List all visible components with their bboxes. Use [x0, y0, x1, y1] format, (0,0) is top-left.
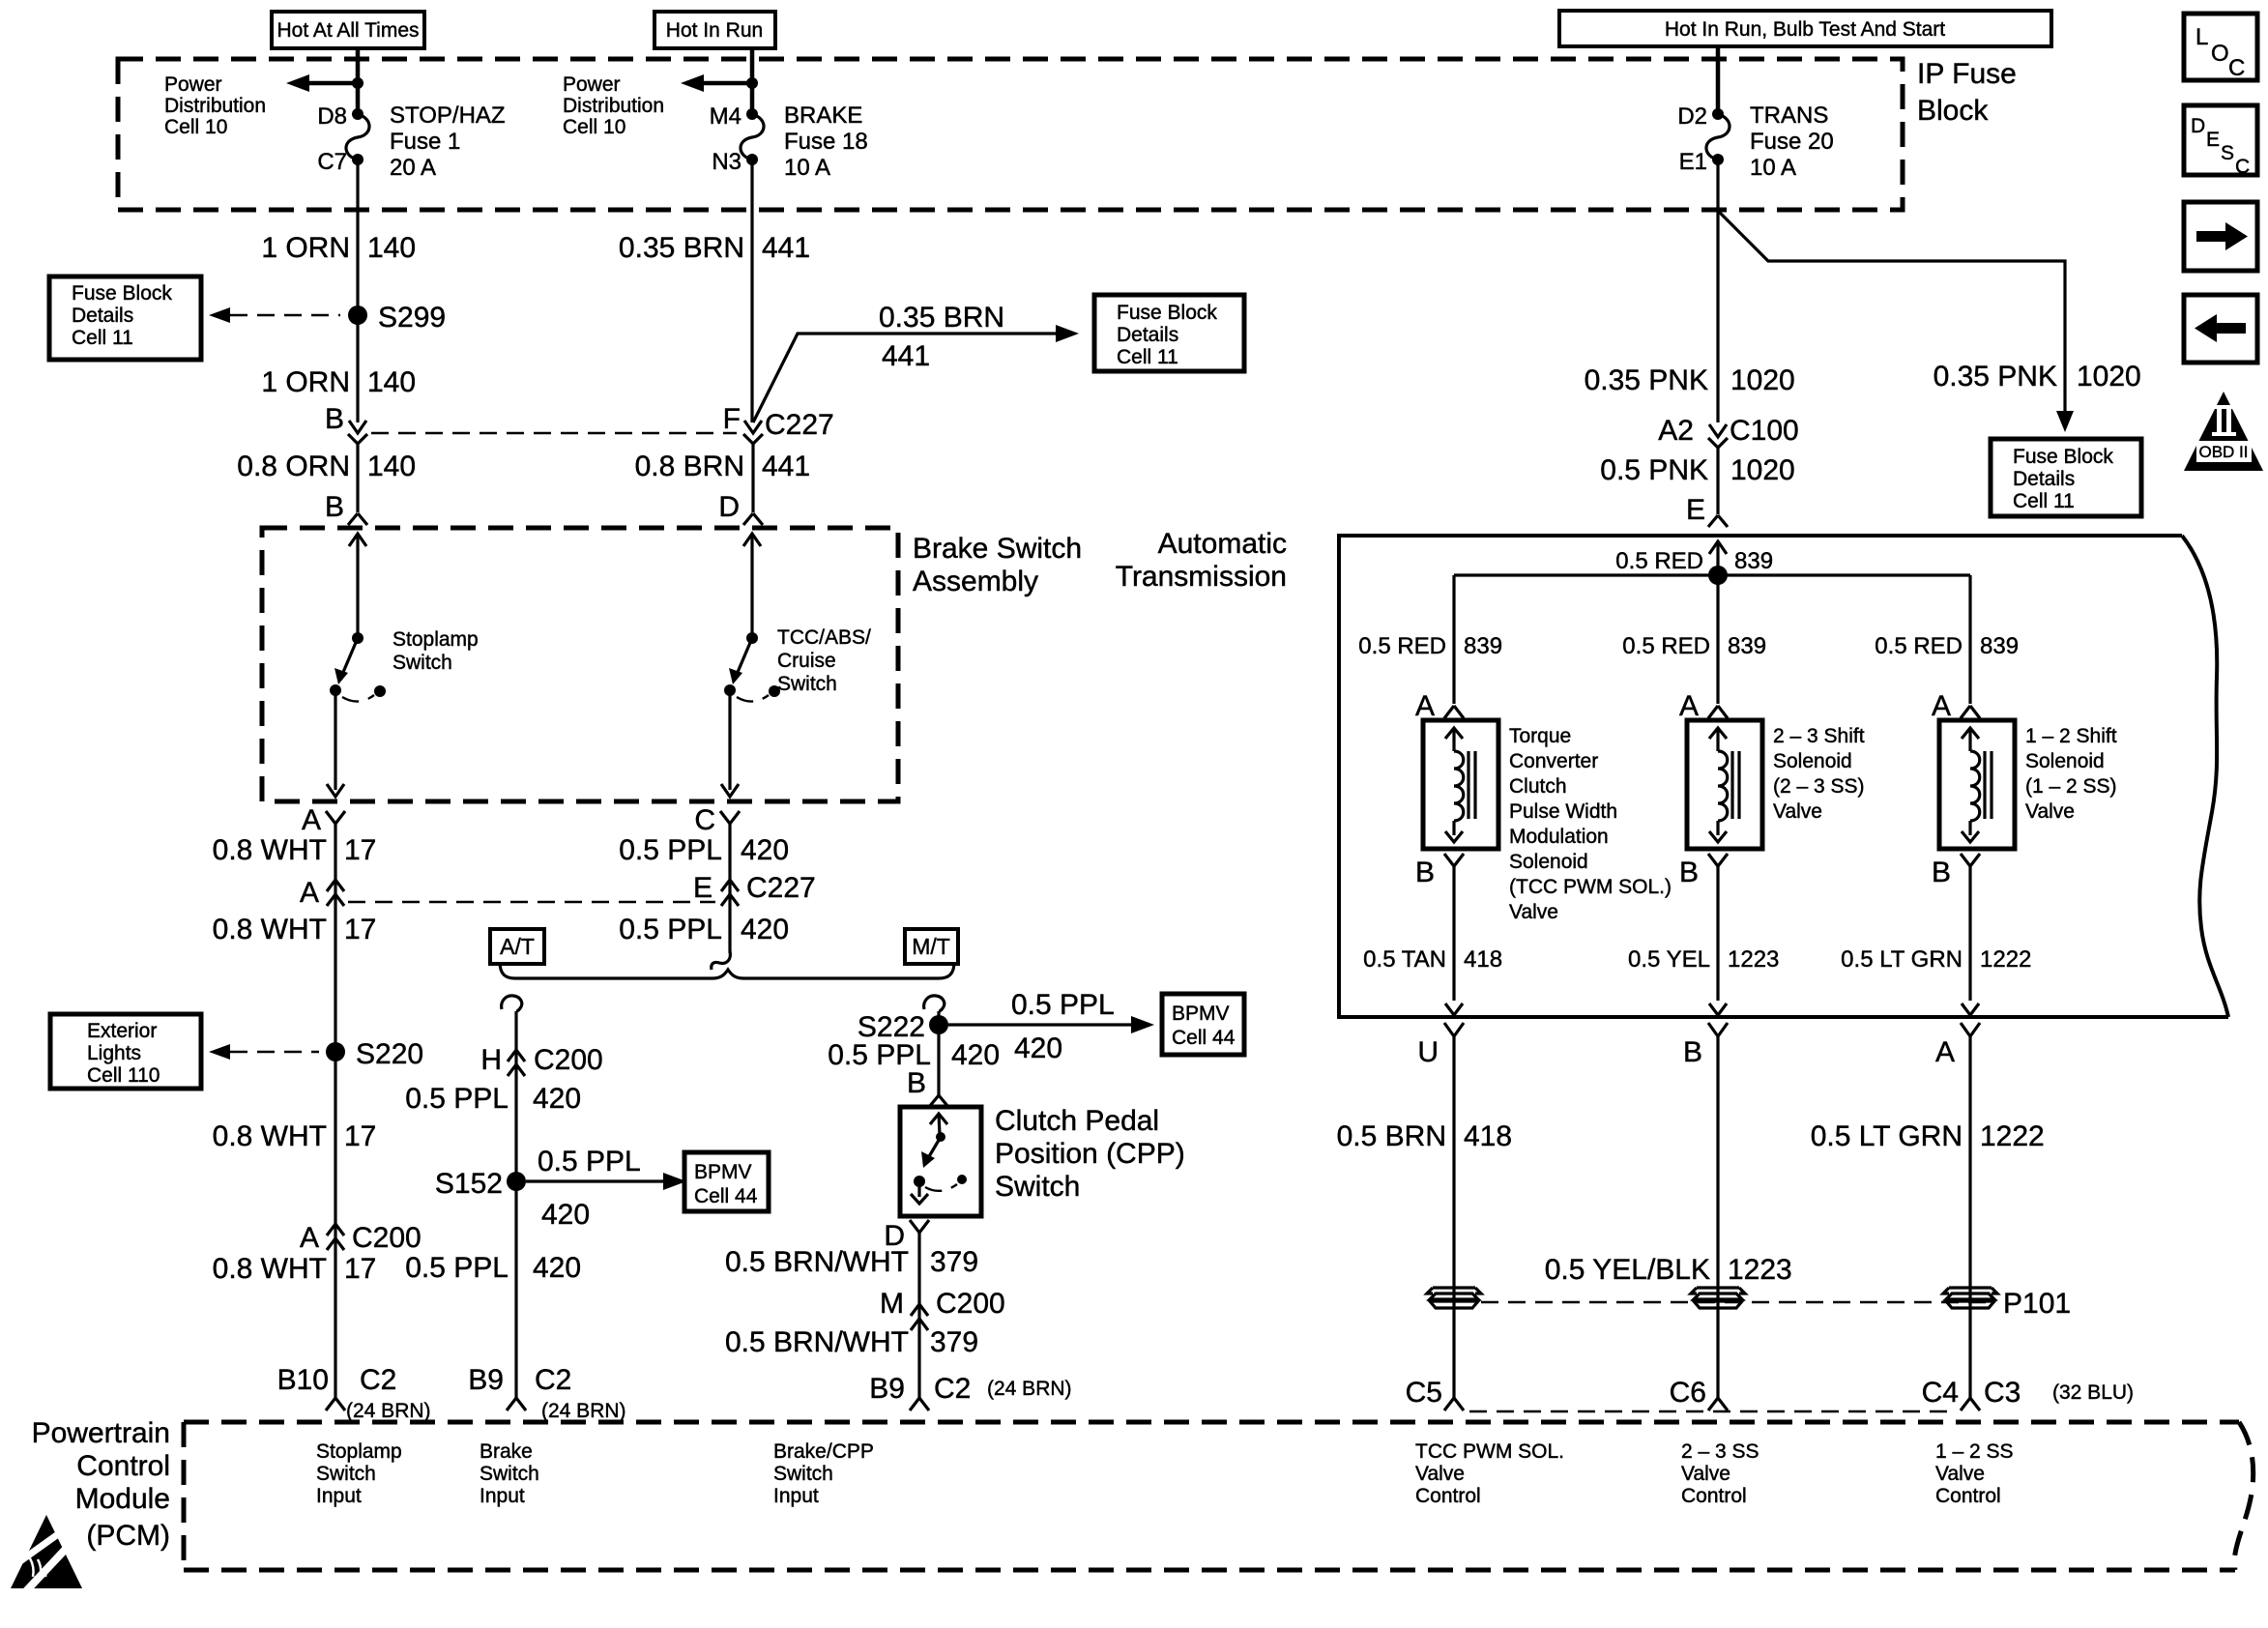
svg-text:A: A — [300, 1222, 319, 1254]
svg-text:0.5 PPL: 0.5 PPL — [538, 1146, 641, 1177]
label 0.35 PNK 1020 (left) — [1585, 364, 1795, 396]
label 0.5 PPL 420 (A/T row 1) — [405, 1083, 581, 1115]
svg-text:0.5 LT GRN: 0.5 LT GRN — [1811, 1120, 1963, 1152]
svg-text:20 A: 20 A — [390, 155, 436, 181]
pin B below transmission + flare — [1683, 1023, 1728, 1068]
Clutch Pedal Position (CPP) Switch box — [900, 1107, 981, 1216]
svg-text:Stoplamp: Stoplamp — [316, 1440, 402, 1463]
svg-text:BRAKE: BRAKE — [784, 102, 862, 129]
wire 0.5 RED 839 branch at x=2038 — [1968, 575, 1971, 704]
svg-text:Module: Module — [75, 1483, 170, 1515]
wire 1 ORN 140 from fuse C7 to junction B — [356, 160, 359, 422]
splice node 0.5 RED 839 — [1615, 548, 1773, 585]
wire 0.5 BRN/WHT 379 to M C200 — [917, 1233, 920, 1398]
label 0.35 BRN 441 (row 1) — [619, 232, 810, 264]
svg-text:1223: 1223 — [1728, 1254, 1792, 1286]
icon LOC — [2184, 14, 2257, 81]
svg-text:C: C — [2235, 156, 2250, 178]
label BRAKE Fuse 18 10 A — [784, 102, 868, 181]
pin B at CPP switch + flare — [907, 1067, 948, 1107]
svg-text:Cell 11: Cell 11 — [2013, 490, 2075, 512]
svg-text:420: 420 — [533, 1083, 581, 1115]
label Power Distribution Cell 10 (left) — [164, 73, 266, 138]
connector junction B (in-line, C227 plane) — [325, 403, 367, 444]
svg-text:1020: 1020 — [2077, 361, 2141, 392]
splice S222 — [858, 1011, 948, 1043]
svg-text:0.5 BRN/WHT: 0.5 BRN/WHT — [725, 1246, 909, 1278]
svg-text:E1: E1 — [1679, 149, 1707, 175]
split tilde at top of brace — [712, 951, 731, 970]
svg-text:0.5 BRN/WHT: 0.5 BRN/WHT — [725, 1326, 909, 1358]
pin A + flare above 1-2 SS — [1932, 690, 1980, 722]
svg-text:379: 379 — [930, 1326, 978, 1358]
svg-text:E: E — [693, 872, 712, 904]
svg-text:Exterior: Exterior — [87, 1020, 157, 1042]
svg-text:0.5 RED: 0.5 RED — [1875, 633, 1963, 659]
svg-text:2 – 3 SS: 2 – 3 SS — [1681, 1440, 1759, 1463]
svg-text:C200: C200 — [936, 1288, 1005, 1320]
svg-text:C200: C200 — [352, 1222, 422, 1254]
svg-text:Hot At All Times: Hot At All Times — [276, 19, 419, 42]
svg-text:379: 379 — [930, 1246, 978, 1278]
dashed leader from S299 to Fuse Block Details — [209, 307, 340, 323]
svg-text:1 ORN: 1 ORN — [261, 366, 350, 398]
svg-text:0.8 ORN: 0.8 ORN — [237, 451, 350, 482]
svg-text:Valve: Valve — [1935, 1463, 1985, 1485]
label 0.5 YEL/BLK 1223 — [1545, 1254, 1792, 1286]
pin A + flare above 2-3 SS — [1679, 690, 1728, 722]
icon OBD II triangle — [2184, 392, 2263, 471]
wire 0.5 RED 839 branch at x=1504 — [1452, 575, 1455, 704]
svg-text:Cell 10: Cell 10 — [164, 116, 227, 138]
svg-text:Switch: Switch — [393, 652, 452, 674]
svg-text:0.5 RED: 0.5 RED — [1358, 633, 1446, 659]
svg-text:Valve: Valve — [1681, 1463, 1730, 1485]
svg-text:S220: S220 — [356, 1038, 423, 1070]
thin dashed connector line under C5 C6 C4 — [1469, 1410, 1957, 1412]
label 2-3 Shift Solenoid (2-3 SS) Valve — [1773, 725, 1865, 823]
label TCC/ABS/Cruise Switch — [777, 626, 871, 695]
svg-text:C5: C5 — [1406, 1377, 1442, 1409]
svg-text:839: 839 — [1464, 633, 1502, 659]
svg-text:420: 420 — [533, 1252, 581, 1284]
svg-text:10 A: 10 A — [1750, 155, 1796, 181]
wire 0.35 BRN 441 from fuse N3 to junction F — [750, 160, 753, 422]
svg-text:Cell 44: Cell 44 — [1172, 1027, 1236, 1049]
svg-text:Assembly: Assembly — [913, 566, 1038, 597]
solenoid 1-2 SS coil — [1939, 720, 2015, 849]
label 0.5 PPL 420 below S222 — [828, 1039, 1000, 1071]
svg-text:420: 420 — [951, 1039, 1000, 1071]
svg-text:F: F — [723, 403, 741, 435]
label 1 ORN 140 (row 2) — [261, 366, 416, 398]
svg-text:0.5 TAN: 0.5 TAN — [1363, 946, 1446, 973]
svg-text:Clutch: Clutch — [1509, 775, 1567, 798]
svg-text:Fuse 18: Fuse 18 — [784, 129, 868, 155]
svg-text:S299: S299 — [378, 302, 446, 334]
svg-text:S152: S152 — [435, 1168, 503, 1200]
horizontal RED distribution wire — [1454, 573, 1970, 576]
Brake Switch Assembly dashed outline — [262, 528, 898, 801]
label TRANS Fuse 20 10 A — [1750, 102, 1834, 181]
svg-text:(2 – 3 SS): (2 – 3 SS) — [1773, 775, 1865, 798]
svg-text:0.5 PNK: 0.5 PNK — [1600, 454, 1708, 486]
svg-text:Block: Block — [1917, 95, 1989, 127]
svg-text:Solenoid: Solenoid — [1509, 851, 1588, 873]
svg-text:D8: D8 — [317, 103, 347, 130]
svg-text:Control: Control — [1681, 1485, 1747, 1507]
pin U below transmission + flare — [1417, 1023, 1464, 1068]
label 0.5 YEL 1223 — [1628, 946, 1779, 973]
label 0.8 ORN 140 — [237, 451, 416, 482]
pin A below transmission + flare — [1935, 1023, 1980, 1068]
stoplamp switch (wire 1) — [327, 534, 386, 797]
svg-text:1 – 2 Shift: 1 – 2 Shift — [2025, 725, 2117, 747]
wire from TCC PWM SOL pin B to box bottom — [1452, 866, 1455, 1001]
svg-text:IP Fuse: IP Fuse — [1917, 58, 2017, 90]
connector E C227 (in-line) — [693, 872, 816, 906]
splice S152 — [435, 1168, 526, 1200]
svg-text:Distribution: Distribution — [563, 95, 664, 117]
svg-text:B: B — [907, 1067, 926, 1099]
svg-text:0.35 PNK: 0.35 PNK — [1585, 364, 1708, 396]
wire 0.5 LT GRN 1222 down to PCM — [1968, 1036, 1971, 1398]
svg-text:Modulation: Modulation — [1509, 826, 1609, 848]
svg-text:0.5 LT GRN: 0.5 LT GRN — [1841, 946, 1963, 973]
label 0.5 LT GRN 1222 — [1811, 1120, 2045, 1152]
PCM pin B9 C2 (24 BRN) (A/T) — [468, 1364, 625, 1422]
label Powertrain Control Module (PCM) — [32, 1417, 170, 1552]
callout box: BPMV Cell 44 (right) — [1162, 994, 1244, 1055]
svg-text:140: 140 — [367, 366, 416, 398]
svg-text:TCC PWM SOL.: TCC PWM SOL. — [1415, 1440, 1564, 1463]
A/T tag box — [490, 929, 544, 964]
svg-text:Cell 11: Cell 11 — [1117, 346, 1178, 368]
wire from Hot In Run Bulb Test box to fuse 3 — [1716, 46, 1721, 114]
label 0.5 RED 839 — [1358, 633, 1502, 659]
svg-text:0.5 YEL/BLK: 0.5 YEL/BLK — [1545, 1254, 1710, 1286]
wire 0.5 PNK 1020 from C100 to transmission box — [1716, 448, 1719, 514]
svg-text:1223: 1223 — [1728, 946, 1779, 973]
svg-text:U: U — [1417, 1036, 1439, 1068]
label 0.8 WHT 17 (row 1) — [213, 834, 377, 866]
label 0.5 BRN/WHT 379 (row 2) — [725, 1326, 978, 1358]
svg-text:A/T: A/T — [500, 934, 535, 959]
label 0.5 RED 839 — [1622, 633, 1766, 659]
svg-text:C200: C200 — [534, 1044, 603, 1076]
callout box: Fuse Block Details Cell 11 (left) — [49, 276, 201, 360]
svg-text:0.8 BRN: 0.8 BRN — [635, 451, 744, 482]
svg-text:Switch: Switch — [480, 1463, 539, 1485]
header box: Hot At All Times — [272, 12, 424, 48]
svg-text:0.8 WHT: 0.8 WHT — [213, 914, 327, 945]
arrow from S222 to BPMV (right) — [948, 989, 1154, 1064]
svg-text:0.35 BRN: 0.35 BRN — [619, 232, 744, 264]
svg-text:Solenoid: Solenoid — [2025, 750, 2105, 772]
PCM label Brake/CPP Switch Input — [773, 1440, 874, 1507]
PCM label Brake Switch Input — [480, 1440, 539, 1507]
PCM label 2-3 SS Valve Control — [1681, 1440, 1759, 1507]
svg-text:BPMV: BPMV — [1172, 1003, 1230, 1025]
wire 0.8 ORN 140 from junction B to brake switch box — [356, 444, 359, 512]
label 0.5 PNK 1020 — [1600, 454, 1794, 486]
svg-text:M/T: M/T — [912, 934, 950, 959]
grommet P101 on LT GRN wire — [1943, 1288, 1997, 1308]
svg-text:C4: C4 — [1922, 1377, 1959, 1409]
label Automatic Transmission — [1116, 528, 1287, 593]
svg-text:S: S — [2221, 142, 2234, 164]
svg-text:Control: Control — [1415, 1485, 1481, 1507]
PCM label TCC PWM SOL. Valve Control — [1415, 1440, 1564, 1507]
svg-text:B: B — [1932, 857, 1951, 888]
svg-text:Solenoid: Solenoid — [1773, 750, 1852, 772]
svg-text:C7: C7 — [317, 149, 347, 175]
Automatic Transmission box outline (wavy right edge) — [1339, 536, 2228, 1017]
svg-text:Pulse Width: Pulse Width — [1509, 800, 1617, 823]
PCM label Stoplamp Switch Input — [316, 1440, 402, 1507]
label IP Fuse Block — [1917, 58, 2017, 127]
thin dashed connector line between B and F — [371, 432, 737, 434]
wire from Hot In Run box to fuse 2 — [750, 48, 755, 114]
label Clutch Pedal Position (CPP) Switch — [995, 1105, 1185, 1203]
svg-text:Transmission: Transmission — [1116, 561, 1287, 593]
wire 0.5 BRN 418 down to PCM — [1452, 1036, 1455, 1398]
svg-text:A: A — [302, 804, 321, 836]
svg-text:OBD II: OBD II — [2198, 443, 2248, 461]
svg-text:D: D — [2191, 115, 2205, 137]
header box: Hot In Run — [654, 12, 775, 48]
ESD warning symbol — [11, 1515, 82, 1593]
svg-text:C6: C6 — [1670, 1377, 1706, 1409]
svg-text:A: A — [1932, 690, 1951, 722]
svg-text:(24 BRN): (24 BRN) — [987, 1378, 1072, 1400]
svg-text:Input: Input — [480, 1485, 525, 1507]
svg-text:STOP/HAZ: STOP/HAZ — [390, 102, 506, 129]
A/T branch wire curl top — [502, 996, 522, 1011]
svg-text:(32 BLU): (32 BLU) — [2052, 1381, 2134, 1404]
svg-text:C3: C3 — [1984, 1377, 2021, 1409]
svg-text:A: A — [1415, 690, 1435, 722]
svg-text:B: B — [1679, 857, 1699, 888]
svg-text:Powertrain: Powertrain — [32, 1417, 170, 1449]
svg-text:B: B — [325, 491, 344, 523]
label 1 ORN 140 (row 1) — [261, 232, 416, 264]
label 0.5 BRN/WHT 379 (row 1) — [725, 1246, 978, 1278]
svg-text:1 ORN: 1 ORN — [261, 232, 350, 264]
svg-text:A: A — [1935, 1036, 1955, 1068]
svg-text:D: D — [718, 491, 740, 523]
connector H C200 (in-line) — [480, 1044, 602, 1076]
label Brake Switch Assembly — [913, 533, 1082, 597]
wire 0.35 PNK 1020 from fuse E1 to connector A2 C100 — [1716, 160, 1719, 422]
svg-text:0.5 PPL: 0.5 PPL — [405, 1252, 509, 1284]
wire 0.5 PPL 420 from E C227 to split brace — [728, 906, 731, 953]
svg-text:0.5 PPL: 0.5 PPL — [619, 834, 722, 866]
svg-text:839: 839 — [1728, 633, 1766, 659]
svg-text:0.8 WHT: 0.8 WHT — [213, 1253, 327, 1285]
svg-text:839: 839 — [1734, 548, 1773, 574]
wire end flare above brake box (pin B) — [348, 513, 367, 525]
svg-text:E: E — [2206, 129, 2220, 151]
PCM pin C5 — [1406, 1377, 1464, 1410]
svg-text:17: 17 — [344, 914, 376, 945]
wire from 1-2 SS pin B to box bottom — [1968, 866, 1971, 1001]
svg-text:O: O — [2211, 41, 2229, 67]
wire from Hot At All Times box to fuse 1 — [356, 48, 361, 114]
label 0.8 WHT 17 (row 4) — [213, 1253, 377, 1285]
svg-text:D2: D2 — [1677, 103, 1707, 130]
svg-text:Details: Details — [1117, 324, 1178, 346]
fuse F1 STOP/HAZ 20A — [346, 108, 369, 165]
svg-text:Control: Control — [76, 1450, 170, 1482]
connector M C200 (in-line) — [880, 1288, 1005, 1330]
svg-text:(PCM): (PCM) — [86, 1520, 170, 1552]
label 0.5 RED 839 — [1875, 633, 2019, 659]
svg-text:Stoplamp: Stoplamp — [393, 628, 479, 651]
callout box: Fuse Block Details Cell 11 (middle) — [1094, 295, 1244, 371]
svg-text:TRANS: TRANS — [1750, 102, 1828, 129]
Powertrain Control Module dashed outline (wavy right edge) — [184, 1420, 2239, 1425]
wire 0.5 PPL 420 segment to connector E C227 — [728, 824, 731, 906]
svg-text:Automatic: Automatic — [1158, 528, 1287, 560]
PCM label 1-2 SS Valve Control — [1935, 1440, 2014, 1507]
dashed leader from S220 to Exterior Lights — [209, 1044, 319, 1060]
grommet on BRN wire — [1427, 1288, 1481, 1308]
label Torque Converter Clutch Pulse Width Modulation Solenoid — [1509, 725, 1672, 923]
svg-text:1222: 1222 — [1980, 1120, 2045, 1152]
svg-text:C: C — [694, 804, 715, 836]
svg-text:0.5 PPL: 0.5 PPL — [405, 1083, 509, 1115]
svg-text:M: M — [880, 1288, 904, 1320]
svg-text:10 A: 10 A — [784, 155, 830, 181]
svg-text:Cell 10: Cell 10 — [563, 116, 625, 138]
svg-text:C227: C227 — [765, 409, 834, 441]
wire entry arrow at E inside transmission — [1709, 541, 1727, 575]
CPP switch internals — [911, 1114, 967, 1204]
svg-text:Control: Control — [1935, 1485, 2001, 1507]
label Stoplamp Switch — [393, 628, 479, 674]
svg-text:0.5 RED: 0.5 RED — [1622, 633, 1710, 659]
svg-text:2 – 3 Shift: 2 – 3 Shift — [1773, 725, 1865, 747]
fuse F18 BRAKE 10A — [741, 108, 764, 165]
svg-text:B9: B9 — [468, 1364, 504, 1396]
svg-text:Details: Details — [2013, 468, 2075, 490]
svg-text:M4: M4 — [710, 103, 741, 130]
svg-text:0.8 WHT: 0.8 WHT — [213, 1120, 327, 1152]
label 0.8 BRN 441 — [635, 451, 810, 482]
svg-text:C227: C227 — [746, 872, 816, 904]
svg-text:B: B — [1683, 1036, 1702, 1068]
pin B + flare below 2-3 SS — [1679, 854, 1728, 888]
TCC/ABS/Cruise switch (wire 2) — [721, 534, 780, 797]
wire 0.8 WHT 17 from A C227 down to S220 and beyond — [334, 906, 336, 1398]
arrow from S152 to BPMV — [526, 1146, 686, 1231]
svg-text:BPMV: BPMV — [694, 1161, 752, 1183]
svg-text:Switch: Switch — [316, 1463, 376, 1485]
label 0.5 PPL 420 (A/T row 2) — [405, 1252, 581, 1284]
svg-text:Hot In Run: Hot In Run — [666, 19, 763, 42]
svg-text:0.5 PPL: 0.5 PPL — [619, 914, 722, 945]
svg-text:1020: 1020 — [1730, 364, 1795, 396]
svg-text:A2: A2 — [1658, 415, 1694, 447]
svg-text:(24 BRN): (24 BRN) — [346, 1400, 431, 1422]
svg-text:Torque: Torque — [1509, 725, 1571, 747]
svg-text:418: 418 — [1464, 1120, 1512, 1152]
pin B + flare below TCC PWM SOL — [1415, 854, 1464, 888]
pin E at transmission + flare — [1686, 494, 1728, 527]
svg-text:140: 140 — [367, 451, 416, 482]
svg-text:P101: P101 — [2003, 1288, 2071, 1320]
svg-text:C100: C100 — [1730, 415, 1799, 447]
svg-text:420: 420 — [741, 834, 789, 866]
splice S220 — [326, 1038, 423, 1070]
svg-text:Lights: Lights — [87, 1042, 141, 1064]
wire 0.5 YEL/BLK 1223 down to PCM — [1716, 1036, 1719, 1398]
svg-text:Switch: Switch — [995, 1171, 1080, 1203]
callout box: BPMV Cell 44 (left) — [684, 1152, 769, 1211]
arrow to Power Distribution (middle) — [681, 74, 758, 92]
pin A + flare above TCC PWM SOL — [1415, 690, 1464, 722]
svg-text:Power: Power — [164, 73, 222, 96]
svg-text:TCC/ABS/: TCC/ABS/ — [777, 626, 871, 649]
callout box: Exterior Lights Cell 110 — [50, 1014, 201, 1089]
svg-text:Fuse Block: Fuse Block — [1117, 302, 1217, 324]
solenoid 2-3 SS coil — [1687, 720, 1762, 849]
label Power Distribution Cell 10 (middle) — [563, 73, 664, 138]
svg-text:0.5 PPL: 0.5 PPL — [1011, 989, 1115, 1021]
pin C below brake box + flare (wire 2) — [694, 804, 740, 836]
svg-text:Fuse 20: Fuse 20 — [1750, 129, 1834, 155]
M/T tag box — [905, 929, 958, 964]
svg-text:Power: Power — [563, 73, 621, 96]
svg-text:C: C — [2228, 55, 2245, 81]
svg-text:Switch: Switch — [773, 1463, 833, 1485]
svg-text:0.35 BRN: 0.35 BRN — [879, 302, 1004, 334]
splice S299 — [348, 302, 446, 334]
svg-text:420: 420 — [1014, 1032, 1062, 1064]
svg-text:Details: Details — [72, 305, 133, 327]
connector A C200 (in-line) — [300, 1222, 422, 1254]
PCM pin C4 C3 (32 BLU) — [1922, 1377, 2134, 1410]
grommet P101 dashed line — [1481, 1301, 1990, 1303]
brace for A/T - M/T split — [500, 962, 954, 978]
svg-text:C2: C2 — [360, 1364, 396, 1396]
solenoid TCC PWM SOL coil — [1423, 720, 1498, 849]
svg-text:Valve: Valve — [1415, 1463, 1465, 1485]
label STOP/HAZ Fuse 1 20 A — [390, 102, 506, 181]
icon DESC — [2184, 105, 2257, 178]
svg-text:Valve: Valve — [1773, 800, 1822, 823]
svg-text:Brake/CPP: Brake/CPP — [773, 1440, 874, 1463]
svg-text:N3: N3 — [712, 149, 741, 175]
label 0.5 PPL 420 (row 1) — [619, 834, 789, 866]
svg-text:441: 441 — [762, 232, 810, 264]
label 0.35 PNK 1020 (right) — [1934, 361, 2141, 392]
svg-text:B9: B9 — [869, 1373, 905, 1405]
pin D below CPP + flare — [884, 1220, 929, 1252]
svg-text:L: L — [2195, 24, 2208, 50]
svg-text:Cell 110: Cell 110 — [87, 1064, 160, 1087]
grommet on YEL/BLK wire — [1691, 1288, 1745, 1308]
arrow to Power Distribution (left) — [286, 74, 363, 92]
svg-text:A: A — [1679, 690, 1699, 722]
label 0.5 BRN 418 — [1337, 1120, 1512, 1152]
label 0.8 WHT 17 (row 3) — [213, 1120, 377, 1152]
IP Fuse Block dashed outline — [118, 59, 1903, 210]
svg-text:140: 140 — [367, 232, 416, 264]
A/T branch wire down to PCM — [514, 1011, 517, 1398]
svg-text:Distribution: Distribution — [164, 95, 266, 117]
